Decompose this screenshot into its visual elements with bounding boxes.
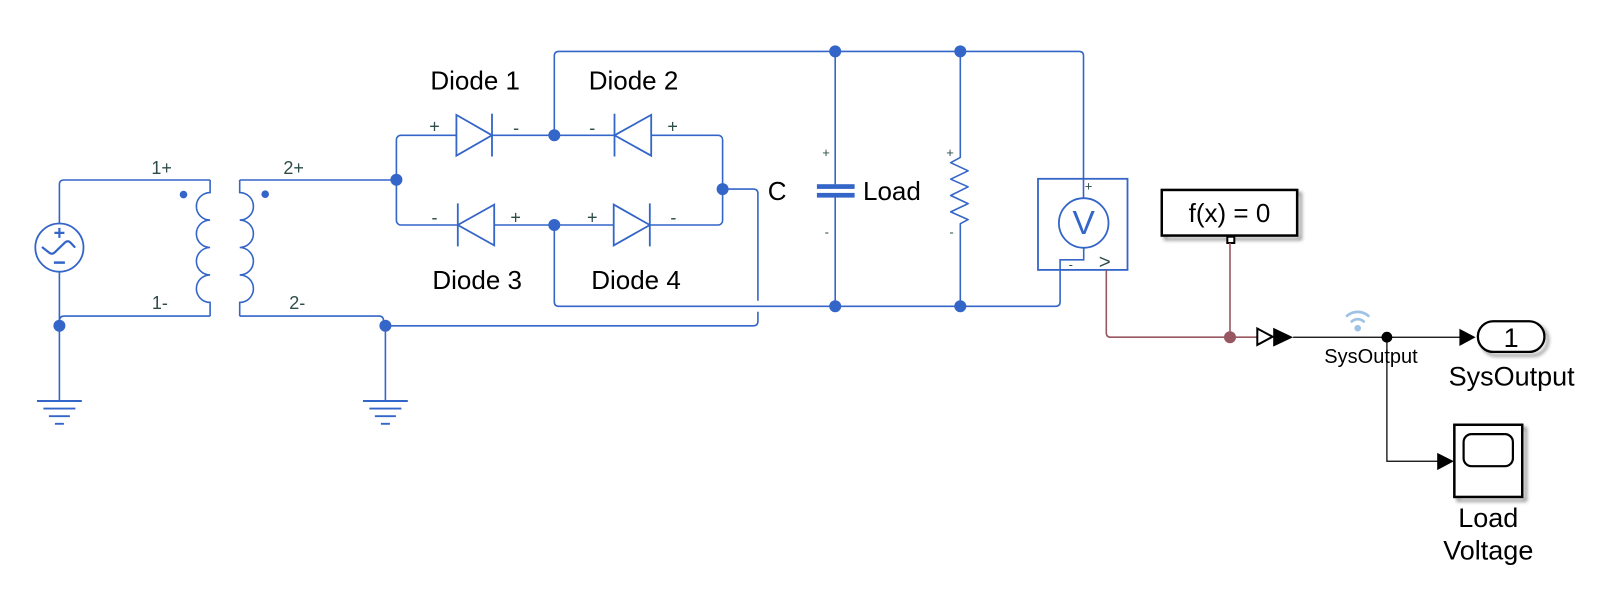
scope arrowhead xyxy=(1437,453,1454,470)
svg-text:-: - xyxy=(432,207,438,227)
capacitor C plates xyxy=(817,184,855,189)
wire: bridge + output top bus xyxy=(554,51,1083,198)
wire: secondary + to bridge left node xyxy=(240,179,397,181)
wire: bridge rectangle loop xyxy=(396,135,722,225)
wire: AC source + to transformer primary xyxy=(59,180,210,224)
svg-text:>: > xyxy=(1099,251,1111,274)
solver block f(x)=0 shadow xyxy=(1162,190,1297,236)
svg-text:1-: 1- xyxy=(152,293,168,313)
junction dot: top bus resistor xyxy=(954,45,966,57)
voltmeter U1 box xyxy=(1038,179,1128,270)
solver port square xyxy=(1227,237,1234,243)
junction dot: bridge bottom mid node xyxy=(548,219,560,231)
svg-text:-: - xyxy=(513,118,519,138)
svg-text:+: + xyxy=(822,145,830,160)
transformer polarity dot primary xyxy=(180,191,188,199)
diode D4 xyxy=(614,203,650,246)
scope block shadow xyxy=(1454,425,1522,497)
svg-text:SysOutput: SysOutput xyxy=(1324,346,1418,368)
outport block SysOutput xyxy=(1478,321,1545,352)
junction dot: bridge left node xyxy=(390,174,402,186)
transformer polarity dot secondary xyxy=(261,190,269,198)
svg-text:-: - xyxy=(589,118,595,138)
solver block f(x)=0 xyxy=(1162,190,1297,236)
ground G1 xyxy=(37,401,82,424)
wifi logging badge xyxy=(1347,312,1368,322)
maroon junction dot xyxy=(1224,331,1236,343)
transformer T1 primary winding xyxy=(196,180,210,316)
resistor Load branch xyxy=(951,51,968,306)
svg-text:-: - xyxy=(949,224,953,239)
ground G2 xyxy=(363,401,408,424)
junction dot: bridge top mid node xyxy=(548,129,560,141)
svg-text:+: + xyxy=(667,117,678,137)
svg-text:+: + xyxy=(429,117,440,137)
svg-text:C: C xyxy=(768,176,787,206)
svg-text:Diode 2: Diode 2 xyxy=(589,66,679,96)
svg-text:-: - xyxy=(825,224,829,239)
capacitor C branch wires xyxy=(834,51,836,306)
svg-text:Diode 1: Diode 1 xyxy=(430,66,520,96)
svg-text:+: + xyxy=(587,207,598,227)
svg-text:Diode 4: Diode 4 xyxy=(591,265,681,295)
svg-text:-: - xyxy=(670,207,676,227)
svg-text:Voltage: Voltage xyxy=(1443,536,1533,566)
svg-text:+: + xyxy=(510,207,521,227)
svg-text:1+: 1+ xyxy=(151,158,172,178)
outport block shadow xyxy=(1478,321,1545,352)
wire: transformer primary - jog to ground node xyxy=(59,316,210,321)
junction dot: bottom bus capacitor xyxy=(829,300,841,312)
diode D1 xyxy=(456,114,492,157)
scope block Load Voltage xyxy=(1454,425,1522,497)
wire: AC source - down to ground xyxy=(58,272,60,401)
svg-text:2+: 2+ xyxy=(283,158,304,178)
wire: secondary - run to bridge right node xyxy=(240,189,758,326)
svg-text:Load: Load xyxy=(1458,503,1518,533)
junction dot: top bus capacitor xyxy=(829,45,841,57)
signal branch dot xyxy=(1382,332,1393,343)
svg-text:+: + xyxy=(946,145,954,160)
AC voltage source V1 xyxy=(35,224,83,272)
PS-Simulink converter solid arrow xyxy=(1273,328,1293,347)
voltmeter internal wire top xyxy=(1083,179,1085,198)
wire: bridge - output bottom bus into voltmeter xyxy=(554,225,1060,306)
voltmeter circle xyxy=(1059,198,1109,248)
signal wire to scope xyxy=(1387,337,1438,461)
svg-text:f(x) = 0: f(x) = 0 xyxy=(1189,198,1271,228)
junction dot: primary ground node xyxy=(53,320,65,332)
scope screen xyxy=(1464,434,1513,466)
svg-text:+: + xyxy=(1085,178,1093,193)
physical signal line: voltmeter to junction xyxy=(1106,270,1257,337)
junction dot: bottom bus resistor xyxy=(954,300,966,312)
svg-text:V: V xyxy=(1073,205,1096,242)
signal wire to outport xyxy=(1293,336,1460,338)
svg-text:-: - xyxy=(1069,257,1073,272)
voltmeter internal wire bottom xyxy=(1060,248,1084,270)
junction dot: bridge right node xyxy=(717,183,729,195)
diode D3 xyxy=(458,203,494,246)
transformer T1 secondary winding xyxy=(240,180,254,316)
wire: to ground G2 xyxy=(384,326,386,401)
junction dot: secondary ground node xyxy=(379,320,391,332)
svg-text:Diode 3: Diode 3 xyxy=(432,265,522,295)
physical signal line: solver to junction xyxy=(1229,243,1231,337)
svg-text:SysOutput: SysOutput xyxy=(1449,361,1576,391)
PS-Simulink converter hollow arrow xyxy=(1257,329,1272,345)
svg-text:2-: 2- xyxy=(289,293,305,313)
svg-text:Load: Load xyxy=(863,176,921,206)
diode D2 xyxy=(615,114,652,157)
outport arrowhead xyxy=(1459,329,1475,346)
svg-text:1: 1 xyxy=(1504,323,1519,353)
